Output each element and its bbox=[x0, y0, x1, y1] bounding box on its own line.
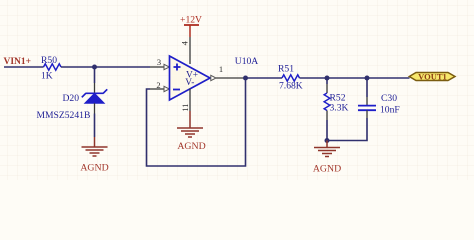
port VOUT1 bbox=[409, 71, 455, 81]
pin D20 anode bbox=[94, 103, 96, 113]
pin 3 of U10A bbox=[150, 57, 169, 70]
wire node B to R51 bbox=[246, 77, 283, 79]
svg-text:AGND: AGND bbox=[80, 163, 108, 174]
ground AGND (R52/C30) bbox=[313, 141, 341, 175]
wire R50 to node A bbox=[61, 66, 150, 68]
resistor R52 bbox=[324, 93, 348, 114]
svg-text:1K: 1K bbox=[41, 71, 53, 82]
zener diode D20 MMSZ5241B bbox=[37, 89, 108, 121]
pin V+ (4) bbox=[179, 37, 190, 64]
pin 2 of U10A bbox=[150, 80, 169, 92]
node B junction (output/feedback) bbox=[243, 76, 248, 81]
ground AGND (diode) bbox=[80, 137, 108, 174]
resistor R51 bbox=[278, 64, 303, 92]
resistor R50 bbox=[41, 55, 61, 82]
svg-text:VIN1+: VIN1+ bbox=[4, 57, 32, 67]
node E junction bbox=[325, 138, 330, 143]
wire VIN1+ to R50 bbox=[4, 66, 44, 68]
svg-text:3: 3 bbox=[157, 57, 161, 67]
svg-text:MMSZ5241B: MMSZ5241B bbox=[37, 110, 91, 121]
wire node C to node D bbox=[327, 77, 367, 79]
svg-text:AGND: AGND bbox=[313, 164, 341, 175]
sheet background bbox=[0, 0, 474, 180]
pin D20 cathode bbox=[94, 83, 96, 93]
svg-text:2: 2 bbox=[156, 80, 160, 90]
svg-text:V-: V- bbox=[185, 78, 194, 88]
pin V- (11) bbox=[180, 89, 190, 112]
svg-text:AGND: AGND bbox=[177, 141, 205, 152]
svg-text:10nF: 10nF bbox=[380, 105, 400, 116]
ground AGND (op-amp) bbox=[177, 111, 206, 152]
node D junction bbox=[365, 76, 370, 81]
svg-text:R50: R50 bbox=[41, 55, 57, 66]
svg-text:VOUT1: VOUT1 bbox=[418, 71, 447, 81]
node C junction bbox=[325, 76, 330, 81]
wire node D down to C30 bbox=[366, 78, 368, 97]
svg-text:1: 1 bbox=[219, 64, 223, 74]
svg-text:+12V: +12V bbox=[180, 15, 202, 26]
svg-text:C30: C30 bbox=[381, 93, 397, 104]
svg-text:7.68K: 7.68K bbox=[279, 81, 303, 92]
svg-text:3.3K: 3.3K bbox=[330, 102, 349, 113]
svg-text:R51: R51 bbox=[278, 64, 294, 75]
pin R52 top bbox=[326, 84, 328, 93]
node A junction bbox=[92, 65, 97, 70]
svg-text:11: 11 bbox=[180, 104, 190, 112]
op-amp U10A bbox=[170, 56, 259, 100]
pin C30 bottom bbox=[366, 110, 368, 118]
wire node D to port VOUT1 bbox=[367, 77, 410, 79]
wire feedback loop to pin 2 bbox=[147, 78, 246, 166]
wire node C down to R52 bbox=[326, 78, 328, 84]
pin R52 bottom bbox=[326, 111, 328, 121]
wire D20 to AGND bbox=[94, 114, 96, 138]
wire R52 to node E bbox=[326, 120, 328, 141]
pin 1 of U10A (output) bbox=[211, 64, 246, 81]
capacitor C30 bbox=[358, 93, 400, 116]
wire node E to C30 bottom bbox=[327, 118, 367, 141]
pin C30 top bbox=[366, 97, 368, 105]
svg-text:U10A: U10A bbox=[235, 56, 259, 67]
wire node A down to D20 bbox=[94, 67, 96, 83]
wire R51 to node C bbox=[300, 77, 328, 79]
power +12V bbox=[180, 15, 202, 38]
svg-text:D20: D20 bbox=[63, 93, 80, 104]
